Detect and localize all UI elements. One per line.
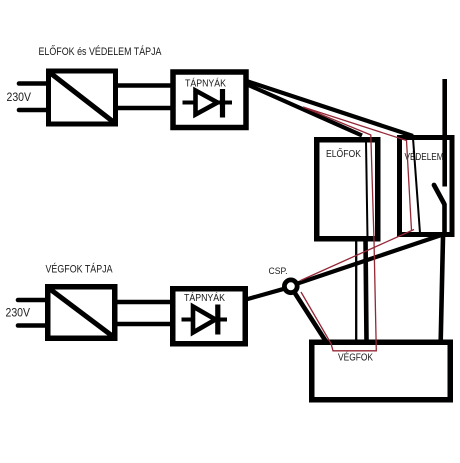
wire: thick drop ELŐFOK to VÉGFOK bbox=[366, 238, 367, 341]
svg-text:VÉGFOK: VÉGFOK bbox=[338, 351, 373, 364]
wire: mains stub bottom-left bottom bbox=[18, 323, 46, 328]
diode D1 bbox=[183, 89, 233, 118]
wire: thin line inside VÉDELEM bbox=[413, 138, 420, 233]
diode D2 bbox=[182, 305, 228, 335]
power supply PCB box TÁPNYÁK (bottom) bbox=[173, 289, 246, 344]
wire: CSP junction to VÉGFOK bbox=[295, 293, 327, 342]
tall bus line (middle segment) bbox=[442, 204, 447, 237]
wire: thin drop left of it bbox=[355, 239, 357, 341]
svg-text:230V: 230V bbox=[6, 308, 31, 320]
wire: TÁPNYÁK to CSP junction bbox=[246, 289, 284, 300]
svg-text:VÉDELEM: VÉDELEM bbox=[405, 150, 444, 163]
wire: mains stub bottom-left top bbox=[18, 298, 46, 303]
wire: T1 to TÁPNYÁK top bbox=[116, 83, 173, 88]
junction CSP. circle bbox=[284, 280, 297, 293]
wire: mains stub bottom bbox=[19, 108, 47, 113]
transformer T1 (box with diagonal) bbox=[49, 71, 116, 124]
svg-text:TÁPNYÁK: TÁPNYÁK bbox=[185, 77, 226, 90]
red net: signal loop through ELŐFOK and VÉGFOK bbox=[301, 107, 376, 351]
svg-text:CSP.: CSP. bbox=[269, 266, 288, 276]
wire: T2 to TÁPNYÁK bottom bbox=[115, 322, 173, 327]
protection box VÉDELEM (open frame) bbox=[397, 135, 455, 237]
wire: T1 to TÁPNYÁK bottom bbox=[116, 106, 173, 111]
preamp box ELŐFOK bbox=[317, 140, 378, 239]
switch S1 arm bbox=[434, 185, 444, 204]
wire: CSP junction to VÉDELEM corner bbox=[298, 235, 444, 284]
red net: signal loop through VÉDELEM to CSP bbox=[301, 107, 415, 281]
wire: mains stub top bbox=[19, 81, 47, 86]
tall bus line (lower segment to VÉGFOK) bbox=[441, 237, 443, 341]
svg-text:230V: 230V bbox=[7, 92, 32, 104]
power amp box VÉGFOK bbox=[312, 342, 451, 400]
wire: T2 to TÁPNYÁK top bbox=[115, 300, 173, 305]
wire: fan line B to ELŐFOK bbox=[245, 84, 362, 136]
tall bus line (upper segment) bbox=[442, 79, 447, 187]
power supply PCB box TÁPNYÁK (top) bbox=[173, 72, 246, 128]
svg-text:VÉGFOK TÁPJA: VÉGFOK TÁPJA bbox=[46, 263, 114, 276]
svg-text:ELŐFOK és VÉDELEM TÁPJA: ELŐFOK és VÉDELEM TÁPJA bbox=[39, 44, 163, 58]
wire: fan line A to VÉDELEM bbox=[245, 81, 413, 137]
wire: thin line inside ELŐFOK bbox=[366, 141, 368, 238]
transformer T2 (box with diagonal) bbox=[48, 287, 115, 339]
svg-text:ELŐFOK: ELŐFOK bbox=[326, 146, 361, 160]
svg-text:TÁPNYÁK: TÁPNYÁK bbox=[184, 291, 225, 304]
